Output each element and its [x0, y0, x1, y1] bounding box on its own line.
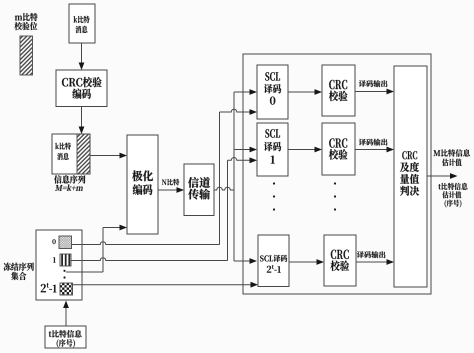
label: polar enc line2 — [133, 184, 153, 195]
label: info seq k-bit line2 — [57, 153, 69, 160]
label: legend line1 m-bit — [15, 13, 38, 21]
block: SCL decoder 2^t-1 — [258, 235, 289, 287]
wire/arrow: SCL1 -> CRC check 1 — [288, 147, 322, 153]
label: SCL0 line2 — [264, 84, 281, 93]
wire/arrow: SCL0 -> CRC check 0 — [288, 89, 322, 95]
label: t-bit info line2 — [57, 339, 75, 347]
label: label: set — [11, 272, 26, 280]
wire/arrow: CRC 2^t-1 -> decision block — [356, 259, 394, 265]
label: polar enc line1 — [132, 170, 153, 181]
label: label: decode output 2^t-1 — [357, 251, 386, 258]
label: label: N bits — [162, 179, 179, 186]
legend hatch swatch (m check bits) — [20, 36, 33, 75]
wire: frozen seq 2^t-1 -> SCL decoder 2^t-1 — [73, 282, 259, 288]
label: label: decode output 0 — [359, 80, 388, 87]
wire/arrow: CRC encoder -> info sequence — [79, 107, 85, 135]
block: CRC check encoder — [56, 70, 107, 107]
block: frozen sequence set container — [36, 230, 82, 300]
wire/arrow: k-bit msg -> CRC encoder — [79, 43, 85, 70]
wire/arrow: info sequence -> polar encoder — [90, 153, 127, 159]
label: label: 2^t-1 — [41, 283, 57, 292]
wire/arrow: CRC1 -> decision block — [355, 147, 394, 153]
label: label: M=k+m — [55, 184, 83, 190]
wire: selected frozen seq -> polar encoder second input — [66, 225, 127, 272]
label: SCL2 line1 — [260, 255, 287, 262]
wire: frozen seq 0 -> SCL decoder 0 — [72, 109, 258, 244]
label: CRC2 line1 — [331, 250, 349, 259]
label: label: M-bit info estimate l1 — [433, 149, 469, 156]
label: label: decode output 1 — [359, 139, 388, 146]
label: SCL2 line2 — [267, 265, 281, 273]
wire/arrow: decision -> outputs — [427, 173, 458, 179]
block: t-bit info (index) — [45, 326, 86, 348]
label: label: info sequence — [54, 175, 85, 183]
wire/arrow: polar encoder -> channel — [158, 187, 184, 193]
wire/arrow: bus -> SCL decoder 1 input — [234, 147, 257, 153]
label: info seq k-bit line1 — [55, 143, 71, 150]
label: CRC0 line1 — [329, 80, 347, 89]
label: label: M-bit info estimate l2 — [442, 159, 462, 166]
label: CRC encoder line1 — [62, 77, 102, 87]
block: channel transmission — [184, 164, 214, 216]
ellipsis dots CRC column — [334, 182, 336, 210]
block: k-bit message (source) — [69, 4, 95, 43]
label: k-bit msg line1 — [74, 16, 90, 23]
label: legend line2 check bits — [14, 22, 37, 30]
label: CRC encoder line2 — [72, 89, 91, 99]
label: index 1 — [53, 257, 56, 262]
wire/arrow: t-bit info -> frozen set — [63, 301, 69, 327]
wire/arrow: bus -> SCL decoder 0 input — [234, 89, 257, 95]
wire/arrow: CRC0 -> decision block — [355, 89, 394, 95]
block: CRC check 0 — [322, 65, 355, 116]
block: CRC check 2^t-1 — [324, 235, 356, 286]
block: SCL decoder 0 — [257, 65, 288, 119]
frozen seq 1 swatch (vstripes) — [60, 254, 71, 266]
block: SCL decoder 1 — [257, 123, 288, 176]
wire: frozen seq 1 -> SCL decoder 1 — [71, 157, 257, 260]
label: CRC2 line2 — [330, 261, 349, 271]
label: label: t-bit info estimate l1 — [438, 183, 467, 190]
label: decision line4 — [400, 186, 419, 196]
block: polar encoder — [127, 135, 158, 234]
label: SCL1 line2 — [264, 142, 281, 151]
label: decision line1 — [402, 151, 417, 159]
label: CRC1 line1 — [329, 138, 347, 147]
block: list decoding section (outer) — [243, 54, 431, 294]
label: channel line1 — [188, 177, 210, 188]
label: label: t-bit info estimate l2 — [442, 191, 461, 198]
ellipsis dots in frozen set — [63, 270, 65, 279]
label: SCL0 line1 — [265, 72, 280, 81]
label: SCL1 line3 — [271, 156, 275, 164]
block: CRC check 1 — [322, 123, 355, 175]
wire: received-vector bus vertical — [233, 92, 235, 261]
label: t-bit info line1 — [49, 330, 82, 338]
label: decision line3 — [400, 174, 419, 184]
wire/arrow: bus -> SCL decoder 2^t-1 input — [234, 258, 257, 264]
frozen seq 0 swatch (mesh) — [59, 236, 72, 249]
label: decision line2 — [400, 162, 419, 172]
ellipsis dots SCL column — [273, 182, 275, 210]
block: CRC & metric decision — [394, 66, 427, 287]
label: channel line2 — [188, 189, 210, 200]
label: SCL1 line1 — [265, 129, 280, 138]
block: info sequence (k-bit msg part) — [52, 134, 90, 174]
wire/arrow: SCL 2^t-1 -> CRC check — [289, 259, 324, 265]
label: label: t-bit info estimate l3 — [445, 200, 462, 208]
label: index 0 — [52, 239, 55, 244]
info sequence hatched m-bit part — [77, 134, 90, 174]
label: CRC1 line2 — [329, 149, 348, 159]
label: k-bit msg line2 — [75, 26, 87, 33]
frozen seq 2^t-1 swatch (checker) — [60, 283, 73, 295]
label: SCL0 line3 — [270, 97, 275, 105]
wire: channel output to bus — [214, 187, 234, 190]
label: CRC0 line2 — [329, 91, 348, 101]
label: label: frozen sequence — [4, 263, 34, 271]
